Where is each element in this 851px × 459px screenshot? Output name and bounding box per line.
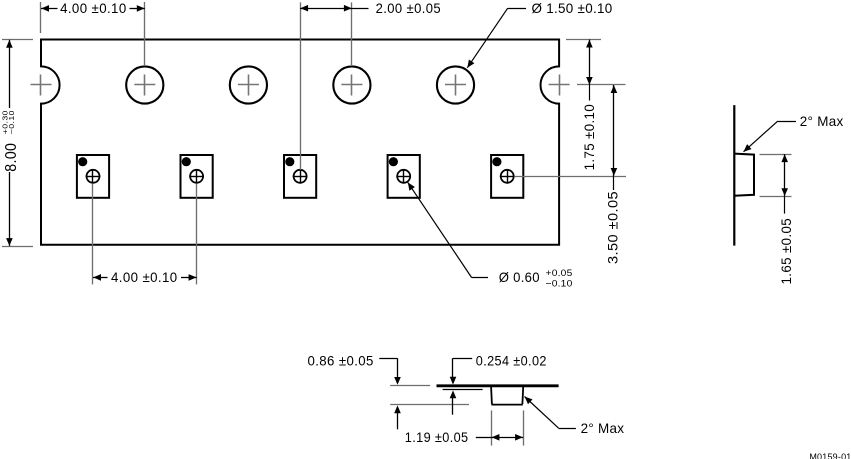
svg-text:+0.05: +0.05 [546,268,573,279]
left edge notch crosshair [31,75,52,96]
right edge notch crosshair [549,75,570,96]
sprocket hole 2 [230,66,267,103]
dimension 3.50 ±0.05 [606,85,621,264]
drawing number M0159-01 [809,452,851,459]
dimension 2.00 ±0.05 [300,1,441,16]
side view pocket bump [734,154,754,196]
dimension 1.19 ±0.05 [405,430,523,445]
dimension 0.86 ±0.05 reference lines [390,386,469,405]
callout 2° Max section view [525,397,625,436]
callout 2° Max side view [744,113,844,152]
svg-text:4.00 ±0.10: 4.00 ±0.10 [111,270,178,285]
svg-text:8.00: 8.00 [3,143,20,172]
dimension 8.00 +0.30/−0.10 tape width [1,40,21,246]
component pocket 3 with index dot [284,155,316,198]
section view pocket depression [491,387,523,405]
svg-text:2° Max: 2° Max [581,420,625,436]
dimension 1.65 ±0.05 [779,154,794,284]
leader callout Ø 0.60 +0.05/−0.10 pocket hole diameter [408,182,573,289]
svg-text:1.65 ±0.05: 1.65 ±0.05 [779,218,794,285]
dimension 8.00 +0.30/−0.10 extension lines [2,40,33,247]
dimension 4.00 ±0.10 top extension lines [41,2,145,66]
svg-text:2° Max: 2° Max [800,113,844,129]
dimension 3.50 ±0.05 extension line [514,176,626,178]
component pocket 5 with index dot [491,155,523,198]
section view tape bottom surface line [443,389,483,391]
dimension 0.254 ±0.02 [450,354,547,415]
svg-text:Ø 1.50 ±0.10: Ø 1.50 ±0.10 [532,0,613,16]
svg-text:4.00 ±0.10: 4.00 ±0.10 [60,1,127,16]
component pocket 1 with index dot [77,155,109,198]
dimension 1.19 ±0.05 extension lines [492,410,524,445]
component pocket 2 with index dot [181,155,213,198]
svg-text:1.19 ±0.05: 1.19 ±0.05 [405,430,469,445]
section view tape top surface [437,384,559,387]
svg-text:−0.10: −0.10 [7,110,16,134]
svg-text:Ø 0.60: Ø 0.60 [499,269,540,285]
dimension 4.00 ±0.10 bottom pocket pitch [93,270,197,285]
sprocket hole 3 [333,66,370,103]
sprocket hole 4 [437,66,474,103]
svg-text:0.86 ±0.05: 0.86 ±0.05 [308,354,374,369]
side view tape edge line [733,105,735,246]
dimension 1.75 ±0.10 [582,40,597,171]
svg-text:0.254 ±0.02: 0.254 ±0.02 [476,354,547,369]
svg-text:3.50 ±0.05: 3.50 ±0.05 [606,191,621,264]
dimension 2.00 ±0.05 extension lines [301,2,352,170]
dimension 1.75 ±0.10 extension lines [566,40,626,85]
dimension 4.00 ±0.10 top [41,1,145,16]
dimension 1.65 ±0.05 extension lines [760,155,792,197]
leader callout Ø 1.50 ±0.10 sprocket hole diameter [467,0,612,68]
svg-text:M0159-01: M0159-01 [809,452,851,459]
svg-text:−0.10: −0.10 [546,279,573,290]
svg-text:2.00 ±0.05: 2.00 ±0.05 [376,1,441,16]
carrier tape outline with edge notches [41,40,559,245]
component pocket 4 with index dot [388,155,420,198]
dimension 0.86 ±0.05 [308,354,401,430]
svg-text:1.75 ±0.10: 1.75 ±0.10 [582,104,597,171]
dimension 4.00 ±0.10 bottom extension lines [93,184,197,284]
sprocket hole 1 [126,66,163,103]
